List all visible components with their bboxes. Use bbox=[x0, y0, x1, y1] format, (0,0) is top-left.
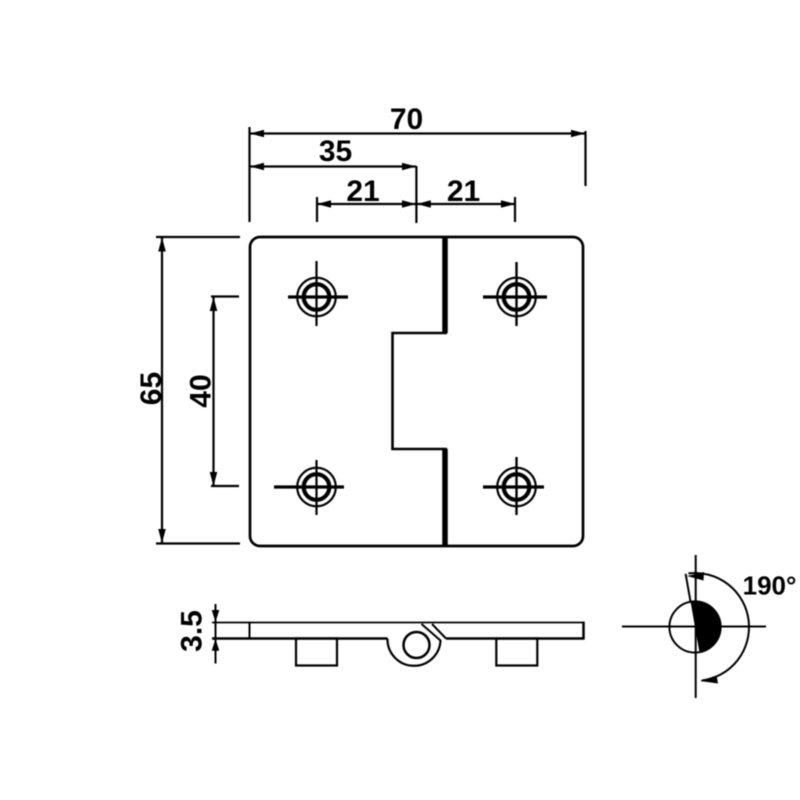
svg-text:21: 21 bbox=[346, 175, 379, 208]
svg-text:65: 65 bbox=[135, 372, 168, 405]
svg-text:70: 70 bbox=[390, 103, 423, 136]
svg-text:40: 40 bbox=[185, 374, 218, 407]
svg-text:190°: 190° bbox=[743, 571, 797, 601]
svg-text:3.5: 3.5 bbox=[176, 610, 209, 652]
svg-text:35: 35 bbox=[319, 135, 352, 168]
svg-text:21: 21 bbox=[447, 175, 480, 208]
